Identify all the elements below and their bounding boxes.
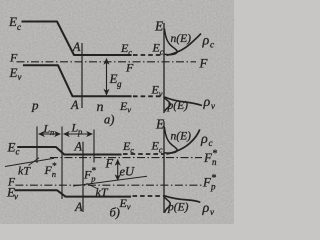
svg-text:ρ: ρ [202, 34, 210, 49]
svg-text:n(E): n(E) [171, 33, 192, 45]
kT leader line right (b) [87, 183, 98, 188]
svg-text:c: c [160, 47, 164, 57]
label Ev p-side (a) [9, 65, 22, 82]
svg-text:c: c [130, 145, 134, 155]
label Ec left (b) [7, 140, 20, 157]
svg-text:E: E [155, 117, 165, 132]
svg-text:*: * [212, 149, 217, 160]
svg-text:c: c [128, 47, 132, 57]
label Fn* right (b) [203, 149, 217, 168]
density of states curve rho_v (b) [164, 196, 200, 203]
svg-text:v: v [127, 202, 131, 212]
band gap arrow Eg (a) [106, 59, 108, 96]
tick line Lp right (b) [93, 130, 95, 163]
svg-text:n: n [97, 100, 104, 115]
svg-text:c: c [209, 138, 213, 148]
label Ec mid (a) [120, 41, 132, 57]
density of states curve rho_c (b) [167, 130, 200, 155]
svg-text:p: p [77, 127, 82, 137]
svg-text:v: v [211, 101, 215, 111]
label Fp* in n-region (b) [83, 166, 96, 184]
svg-text:E: E [8, 14, 17, 29]
label rho_c (a) [202, 34, 215, 50]
quasi-Fermi level Fp* dash-dot (b) [15, 184, 202, 186]
label Ev near axis (a) [151, 83, 163, 99]
svg-text:F: F [9, 51, 18, 65]
label Ec p-side (a) [8, 14, 21, 32]
svg-text:F: F [125, 61, 134, 75]
svg-text:c: c [210, 40, 214, 50]
label rho_v (b) [202, 201, 215, 217]
electron distribution curve n(E) (a) [164, 29, 177, 55]
label rho_v (a) [203, 95, 216, 111]
svg-text:v: v [14, 192, 18, 202]
svg-text:p(E): p(E) [167, 202, 189, 214]
svg-text:*: * [52, 161, 57, 171]
density of states curve rho_v (a) [164, 97, 202, 106]
decaying quasi-level Fn* tail in p-region (b) [5, 158, 54, 166]
svg-text:F: F [199, 56, 209, 71]
dimension arrow Ln (b) [39, 133, 61, 135]
svg-text:n(E): n(E) [171, 131, 192, 143]
svg-text:g: g [117, 79, 122, 89]
paper background [0, 0, 234, 224]
svg-text:*: * [91, 166, 96, 176]
energy axis E (b) [163, 121, 165, 213]
label Ec near axis (b) [151, 139, 163, 155]
svg-text:E: E [7, 140, 16, 155]
dashed Ec continuation to axis (b) [123, 153, 164, 155]
svg-text:*: * [211, 173, 216, 184]
conduction band edge Ec (b) [17, 147, 121, 155]
density of states curve rho_c (a) [167, 34, 202, 56]
svg-text:c: c [17, 22, 21, 32]
svg-text:E: E [9, 65, 18, 80]
svg-text:б): б) [110, 206, 120, 220]
label Lp (b) [71, 121, 83, 137]
svg-text:ρ: ρ [202, 201, 210, 216]
svg-text:v: v [18, 72, 22, 82]
svg-text:E: E [154, 19, 164, 34]
hole distribution curve p(E) (a) [164, 98, 170, 112]
energy axis E (a) [163, 23, 165, 113]
label Ec near axis (a) [152, 41, 164, 57]
tick line Ln left (b) [36, 127, 38, 164]
svg-text:eU: eU [120, 165, 136, 179]
svg-text:ρ: ρ [200, 132, 208, 147]
svg-text:n: n [50, 127, 54, 137]
svg-text:ρ: ρ [203, 95, 211, 110]
svg-text:а): а) [104, 113, 114, 127]
svg-text:v: v [159, 89, 163, 99]
svg-text:kT: kT [18, 164, 31, 178]
junction plane line A (b) [82, 142, 84, 212]
label Fp* right (b) [202, 173, 216, 192]
label Eg (a) [109, 71, 123, 89]
kT leader line left (b) [29, 158, 40, 166]
valence band edge Ev (a) [23, 65, 132, 96]
quasi-Fermi level Fn* dash-dot (b) [50, 157, 202, 159]
svg-text:v: v [127, 105, 131, 115]
junction plane line A (a) [81, 43, 83, 108]
label rho_c (b) [200, 132, 213, 148]
svg-text:A: A [70, 98, 79, 112]
dashed Ec continuation to axis (a) [133, 54, 164, 56]
dashed Ev continuation to axis (a) [133, 95, 164, 97]
svg-text:A: A [72, 40, 81, 54]
svg-text:A: A [74, 200, 83, 214]
label Fn* in p-region (b) [44, 161, 57, 179]
valence band edge Ev (b) [15, 190, 131, 196]
svg-text:c: c [159, 145, 163, 155]
Fermi level F dash-dot line (a) [17, 61, 197, 63]
hole distribution curve p(E) (b) [164, 197, 170, 213]
label Ec mid (b) [122, 139, 134, 155]
label Ev mid (b) [119, 196, 131, 212]
dimension arrow Lp (b) [64, 133, 93, 135]
label Ln (b) [43, 122, 55, 138]
svg-text:F: F [105, 157, 114, 171]
svg-text:p: p [31, 98, 39, 113]
svg-text:A: A [74, 140, 83, 154]
label Ev left (b) [6, 185, 18, 202]
decaying quasi-level Fp* tail in n-region (b) [73, 176, 147, 186]
svg-text:v: v [210, 207, 214, 217]
label Ev mid below line (a) [119, 99, 131, 115]
conduction band edge Ec (a) [22, 22, 132, 56]
tick line Ln/Lp boundary (b) [61, 127, 63, 200]
electron distribution curve n(E) (b) [164, 127, 177, 153]
eU splitting arrow (b) [117, 160, 119, 181]
dashed Ev continuation to axis (b) [133, 195, 164, 197]
